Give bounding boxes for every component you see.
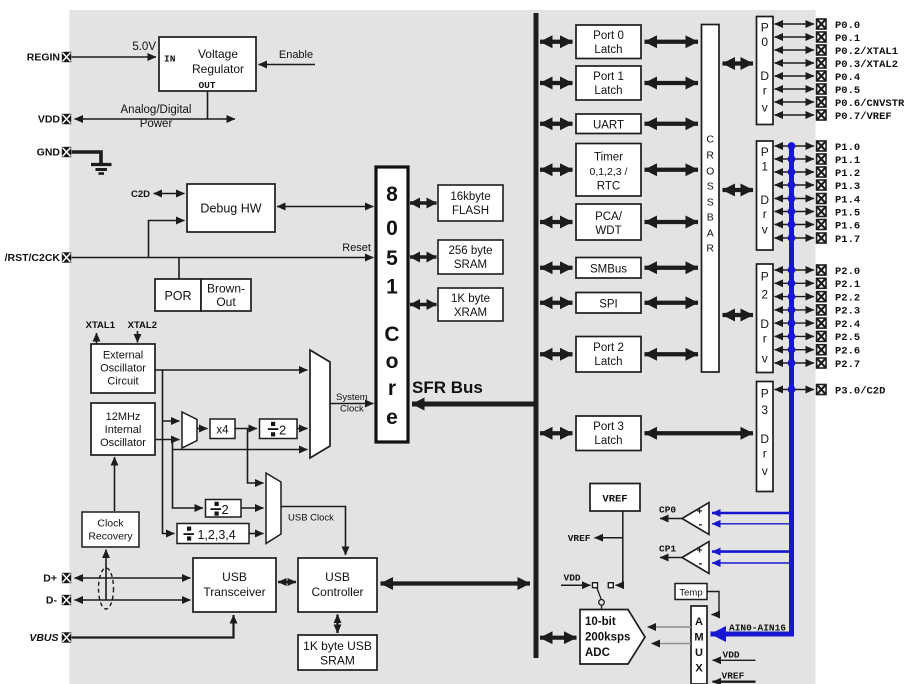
svg-text:Voltage: Voltage [198,47,238,61]
block 12MHz Internal Oscillator [91,403,155,455]
svg-text:+: + [697,507,703,518]
thick wire core to XRAM [410,303,437,307]
main internal vertical bus [534,13,539,658]
wire AMUX to ADC channel 1 [648,626,692,628]
svg-text:P2.4: P2.4 [835,319,860,331]
svg-text:VREF: VREF [602,494,627,506]
wire VREF output tap [595,537,623,539]
block AMUX [691,606,707,684]
svg-text:Oscillator: Oscillator [100,437,146,449]
wire XTAL1 arrow [96,333,98,344]
pin P2.0 [817,265,826,275]
wire D- [75,599,191,601]
svg-text:2: 2 [761,288,768,302]
pin P3.0/C2D [817,385,826,395]
svg-text:D: D [760,317,769,331]
switch circle [599,600,605,606]
svg-text:Port 0: Port 0 [593,30,624,42]
block 10-bit 200ksps ADC [580,610,645,665]
pin D- [62,595,71,605]
block SPI [576,293,641,314]
blue junction at y=238 [788,234,796,242]
svg-text:VDD: VDD [564,573,581,584]
blue wire to CP0 - input [712,523,792,525]
pin P0.2/XTAL1 [817,45,826,55]
thick wire crossbar to P0 Drv [723,61,754,65]
comparator CP0 [682,503,709,535]
pin /RST/C2CK [62,252,71,262]
wire ext osc to system clock mux [155,369,308,371]
svg-text:8: 8 [386,183,398,206]
thick wire bus to UART [540,122,573,126]
svg-text:M: M [694,632,703,644]
wire div1234 to USB mux [249,533,264,535]
svg-text:v: v [762,223,768,237]
svg-text:Reset: Reset [342,242,371,254]
svg-text:R: R [706,243,714,255]
pin P1.6 [817,220,826,230]
wire int osc direct to system clock mux [173,449,308,451]
wire CP1 output [660,557,682,559]
block 1K byte XRAM [438,288,503,321]
svg-text:IN: IN [164,54,176,65]
USB pair ellipse [99,568,114,609]
wire P0.6/CNVSTR [775,101,815,103]
svg-text:1: 1 [386,276,398,299]
svg-text:P2.7: P2.7 [835,359,860,371]
block 1K byte USB SRAM [298,635,377,670]
thick wire bus to Port 0 Latch [540,40,573,44]
thick wire bus to SPI [540,301,573,305]
block UART [576,114,641,134]
svg-text:FLASH: FLASH [452,205,489,217]
svg-text:0: 0 [761,35,768,49]
thick wire bus to PCA/WDT [540,220,573,224]
svg-text:U: U [695,647,703,659]
svg-text:P1.3: P1.3 [835,181,860,193]
block Debug HW [187,184,275,232]
wire P1.5 [775,211,815,213]
block P2 Drv [757,264,774,373]
svg-text:P: P [761,145,769,159]
wire Temp to AMUX [707,592,719,615]
svg-text:Port 2: Port 2 [593,342,624,354]
svg-text:16kbyte: 16kbyte [450,191,490,203]
blue junction at y=296.6 [788,293,796,301]
block 8051 core [376,167,408,442]
svg-text:Latch: Latch [594,435,622,447]
wire x4 to div2 [235,428,257,430]
blue junction at y=185 [788,181,796,189]
pin P2.2 [817,292,826,302]
wire div2b to USB mux [241,507,264,509]
wire P0.0 [775,23,815,25]
svg-text:Out: Out [216,295,236,309]
wire 12MHz osc to small mux [155,439,180,441]
svg-text:v: v [762,464,768,478]
pin P0.5 [817,84,826,94]
thick wire bus to ADC [540,636,577,640]
wire AMUX to ADC channel 2 [652,643,692,645]
wire P2.4 [775,322,815,324]
svg-text:P2.1: P2.1 [835,279,860,291]
svg-text:200ksps: 200ksps [585,632,630,644]
svg-text:R: R [706,150,714,162]
svg-text:Recovery: Recovery [88,531,133,543]
svg-text:VBUS: VBUS [29,632,58,644]
comparator CP1 [682,542,709,574]
svg-text:Regulator: Regulator [192,62,244,76]
wire VREF box down [622,511,624,585]
block USB Transceiver [193,558,276,612]
svg-text:A: A [695,616,703,628]
pin P2.5 [817,331,826,341]
svg-text:Latch: Latch [594,356,622,368]
svg-text:P: P [761,21,769,35]
svg-text:+: + [697,546,703,557]
svg-text:P0.2/XTAL1: P0.2/XTAL1 [835,46,898,58]
thick wire bus to SMBus [540,266,573,270]
svg-text:P0.7/VREF: P0.7/VREF [835,111,892,123]
svg-text:X: X [695,663,703,675]
wire P2.3 [775,309,815,311]
svg-text:P0.1: P0.1 [835,33,860,45]
svg-text:-: - [699,519,703,531]
svg-text:SPI: SPI [599,299,618,311]
blue junction at y=172 [788,168,796,176]
wire P0.1 [775,36,815,38]
svg-text:D+: D+ [43,573,57,585]
blue junction at y=323.1 [788,319,796,327]
blue junction at y=336.4 [788,333,796,341]
block Port 0 Latch [576,25,641,59]
svg-text:VREF: VREF [568,533,591,544]
svg-text:SMBus: SMBus [590,264,627,276]
svg-text:1K byte: 1K byte [451,293,490,305]
svg-text:P2.0: P2.0 [835,266,860,278]
block divide by 2 [260,419,298,439]
svg-text:Debug HW: Debug HW [200,202,261,216]
svg-text:P1.6: P1.6 [835,220,860,232]
thick wire core to FLASH [410,201,437,205]
wire P2.2 [775,296,815,298]
wire P0.7/VREF [775,114,815,116]
block Brown-Out [201,279,251,311]
pin P2.1 [817,278,826,288]
svg-text:P2.2: P2.2 [835,292,860,304]
svg-text:System: System [336,392,368,403]
svg-text:O: O [706,166,714,178]
svg-text:P3.0/C2D: P3.0/C2D [835,385,885,397]
thick wire SPI to crossbar [645,301,699,305]
thick wire Port 3 Latch to P3 Drv [645,431,754,435]
wire Enable into regulator [259,64,316,66]
svg-text:P2.3: P2.3 [835,306,860,318]
blue junction at y=283.3 [788,279,796,287]
svg-text:AIN0-AIN16: AIN0-AIN16 [729,623,786,634]
svg-text:e: e [386,406,398,429]
wire D+ [75,577,191,579]
block P0 Drv [757,17,774,125]
block POR [155,279,201,311]
system clock mux [310,350,330,458]
wire int osc branch down [173,440,204,509]
svg-text:P: P [761,387,769,401]
svg-text:C: C [706,134,714,146]
block Clock Recovery [82,512,139,547]
blue junction at y=211.5 [788,208,796,216]
svg-text:Clock: Clock [340,404,364,415]
block divide by 2 (USB) [206,500,242,518]
pin P1.2 [817,167,826,177]
svg-text:P1.1: P1.1 [835,155,860,167]
svg-text:r: r [763,332,767,346]
block Timer 0,1,2,3 / RTC [576,144,641,197]
blue junction at y=159 [788,155,796,163]
wire P1.6 [775,224,815,226]
wire div2 to system clock mux [297,428,308,430]
svg-text:Oscillator: Oscillator [100,363,146,375]
blue analog net vertical (port pins to AMUX) [711,146,792,634]
wire VDD into AMUX [713,659,756,661]
blue junction at y=198.5 [788,195,796,203]
svg-text:PCA/: PCA/ [595,211,623,223]
svg-text:5: 5 [386,247,398,270]
svg-text:Enable: Enable [279,49,313,61]
wire regulator OUT drop [207,91,209,119]
pin P1.7 [817,233,826,243]
svg-text:Latch: Latch [594,44,622,56]
svg-text:-: - [699,558,703,570]
svg-text:D: D [760,69,769,83]
pin P2.7 [817,358,826,368]
svg-text:Transceiver: Transceiver [203,585,265,599]
svg-text:UART: UART [593,120,624,132]
svg-text:P1.7: P1.7 [835,234,860,246]
block CROSSBAR [702,25,720,373]
blue junction at y=349.7 [788,346,796,354]
blue junction at y=146 [788,142,796,150]
SFR bus horizontal [412,402,536,407]
pin P0.1 [817,32,826,42]
thick wire Timer to crossbar [645,168,699,172]
svg-text:P0.0: P0.0 [835,20,860,32]
thick wire Port 1 Latch to crossbar [645,81,699,85]
svg-text:D-: D- [46,595,58,607]
svg-text:VREF: VREF [722,671,745,682]
pin P0.4 [817,71,826,81]
svg-text:P2.6: P2.6 [835,346,860,358]
wire P2.5 [775,335,815,337]
wire clock recovery to 12MHz oscillator [114,457,116,511]
svg-text:P0.3/XTAL2: P0.3/XTAL2 [835,59,898,71]
pin P2.4 [817,318,826,328]
wire ext osc branch into small mux [163,420,180,422]
pin P1.5 [817,207,826,217]
switch lever [597,588,601,599]
svg-text:XTAL1: XTAL1 [86,320,116,331]
wire /RST/C2CK to core [72,257,374,259]
svg-text:v: v [762,352,768,366]
wire Debug HW to 8051 core [277,206,374,208]
pin P0.3/XTAL2 [817,58,826,68]
wire P0.3/XTAL2 [775,62,815,64]
svg-text:SRAM: SRAM [320,654,355,668]
svg-text:GND: GND [37,147,61,159]
wire POR drop [178,258,180,280]
thick wire Port 0 Latch to crossbar [645,40,699,44]
blue junction at y=270 [788,266,796,274]
svg-text:5.0V: 5.0V [132,41,156,53]
svg-text:Controller: Controller [311,585,363,599]
thick wire bus to Port 2 Latch [540,352,573,356]
svg-text:Power: Power [140,118,173,130]
svg-text:P0.5: P0.5 [835,85,860,97]
svg-text:0: 0 [386,217,398,240]
svg-text:1: 1 [761,160,768,174]
block USB Controller [298,558,377,612]
blue wire to CP1 - input [712,562,792,564]
thick wire bus to Port 1 Latch [540,81,573,85]
svg-text:USB Clock: USB Clock [288,513,334,524]
svg-text:VDD: VDD [723,650,740,661]
wire USB clock to USB controller [281,507,346,556]
svg-text:/RST/C2CK: /RST/C2CK [5,252,61,264]
svg-text:Brown-: Brown- [207,282,245,296]
svg-text:USB: USB [222,570,247,584]
wire small mux to x4 [197,428,208,430]
svg-text:2: 2 [222,502,229,517]
wire clock recovery down to D+/D- [105,550,107,601]
wire P0.2/XTAL1 [775,49,815,51]
switch contact right [608,583,613,588]
svg-text:P2.5: P2.5 [835,332,860,344]
block Port 2 Latch [576,337,641,373]
blue wire to CP1 + input [712,550,792,553]
USB clock mux [266,473,281,544]
block P1 Drv [757,141,774,250]
ground symbol [91,165,112,174]
thick wire SMBus to crossbar [645,266,699,270]
pin GND [62,147,71,157]
wire REGIN to regulator IN [72,56,157,58]
thick wire UART to crossbar [645,122,699,126]
svg-text:r: r [763,84,767,98]
svg-text:D: D [760,432,769,446]
wire Analog/Digital Power [75,118,236,120]
wire ext osc branch down to dividers [163,370,175,534]
svg-text:CP1: CP1 [659,544,676,555]
wire switch to ADC [601,605,603,609]
svg-text:2: 2 [279,423,286,438]
svg-text:P1.4: P1.4 [835,194,860,206]
svg-text:Temp: Temp [679,588,702,599]
wire CP0 output [660,518,682,520]
wire P0.4 [775,75,815,77]
pin P1.0 [817,141,826,151]
oscillator input mux [182,412,197,448]
blue junction at y=389.5 [788,386,796,394]
wire P1.1 [775,158,815,160]
block SMBus [576,258,641,279]
wire x4 tap down to USB mux [248,429,264,484]
svg-text:External: External [103,350,143,362]
wire XTAL2 arrow [137,331,139,343]
block External Oscillator Circuit [91,344,155,393]
pin P0.7/VREF [817,110,826,120]
block P3 Drv [757,382,774,492]
block VREF [590,484,640,512]
pin P2.6 [817,345,826,355]
wire C2D to Debug HW [154,193,185,195]
pin VDD [62,114,71,124]
svg-text:Latch: Latch [594,85,622,97]
wire P0.5 [775,88,815,90]
svg-text:RTC: RTC [597,181,620,193]
thick wire core to SRAM [410,255,437,259]
pin P1.1 [817,154,826,164]
svg-text:ADC: ADC [585,647,610,659]
pin P0.0 [817,19,826,29]
svg-text:Internal: Internal [105,424,142,436]
wire VREF into AMUX [713,681,756,683]
svg-text:3: 3 [761,403,768,417]
wire P2.0 [775,269,815,271]
thick wire bus to Port 3 Latch [540,431,573,435]
svg-text:P0.4: P0.4 [835,72,860,84]
svg-text:B: B [707,212,714,224]
svg-text:VDD: VDD [38,114,61,126]
block 256 byte SRAM [438,240,503,274]
svg-text:P1.2: P1.2 [835,168,860,180]
wire VDD to switch [561,584,591,586]
wire VREF line into switch right contact [616,584,623,586]
svg-text:XTAL2: XTAL2 [128,320,157,331]
svg-text:REGIN: REGIN [27,52,60,64]
thick wire crossbar to P2 Drv [723,313,754,317]
svg-text:Clock: Clock [97,518,124,530]
wire P1.2 [775,171,815,173]
wire P3.0/C2D [775,389,815,391]
svg-text:P1.5: P1.5 [835,207,860,219]
svg-text:SFR Bus: SFR Bus [412,378,483,397]
blue junction at y=363 [788,359,796,367]
switch contact left [593,583,598,588]
svg-text:USB: USB [325,570,350,584]
thick wire Port 2 Latch to crossbar [645,352,699,356]
pin VBUS [62,632,71,642]
thick wire PCA/WDT to crossbar [645,220,699,224]
svg-text:S: S [707,181,714,193]
svg-text:P: P [761,270,769,284]
svg-text:XRAM: XRAM [454,307,487,319]
wire P1.4 [775,198,815,200]
svg-text:256 byte: 256 byte [448,245,492,257]
wire GND [72,152,102,163]
svg-text:P1.0: P1.0 [835,142,860,154]
blue junction at y=224.5 [788,221,796,229]
pin P1.4 [817,194,826,204]
svg-text:C: C [384,323,399,346]
svg-text:10-bit: 10-bit [585,616,616,628]
svg-text:Circuit: Circuit [107,376,138,388]
svg-text:CP0: CP0 [659,505,676,516]
svg-text:1K byte USB: 1K byte USB [303,639,372,653]
svg-text:Port 3: Port 3 [593,421,624,433]
thick wire USB controller to SFR bus [381,581,531,585]
svg-text:12MHz: 12MHz [106,411,141,423]
thick wire bus to Timer [540,168,573,172]
